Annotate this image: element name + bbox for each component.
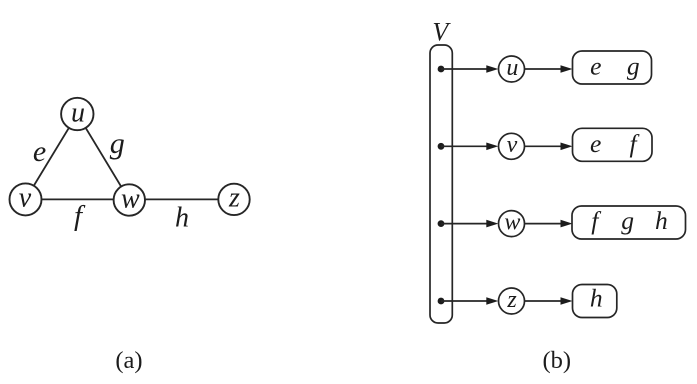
row u: dot (438, 66, 445, 73)
row u: arrow to list (525, 65, 573, 73)
svg-text:e: e (590, 129, 601, 158)
wire edge f (v-w) (26, 198, 130, 200)
svg-text:u: u (506, 55, 518, 81)
node u (61, 97, 93, 130)
node v (10, 182, 42, 215)
node z (218, 183, 249, 215)
svg-text:e: e (590, 52, 601, 81)
row w: arrow to node (441, 220, 498, 228)
svg-text:z: z (228, 183, 240, 214)
wire edge g (u-w) (77, 114, 129, 200)
row w: edge list box (572, 206, 686, 239)
svg-text:h: h (175, 202, 189, 233)
row v: arrow to node (441, 143, 498, 151)
svg-text:w: w (504, 210, 520, 236)
row w: arrow to list (525, 220, 573, 228)
row v: arrow to list (525, 143, 573, 151)
row w: dot (438, 220, 445, 227)
row v: dot (438, 143, 445, 150)
svg-text:(b): (b) (543, 347, 572, 374)
svg-text:g: g (627, 52, 640, 81)
wire edge h (w-z) (129, 198, 234, 200)
row z: edge list box (573, 285, 617, 318)
row z: dot (438, 298, 445, 305)
row z: node z (499, 287, 525, 314)
svg-text:(a): (a) (115, 347, 142, 374)
svg-text:h: h (590, 284, 603, 313)
svg-text:g: g (621, 206, 634, 235)
row u: edge list box (573, 51, 652, 84)
svg-text:v: v (19, 182, 32, 213)
row u: node u (499, 55, 525, 82)
row v: node v (499, 132, 525, 159)
svg-text:z: z (506, 287, 517, 313)
vertex array V (430, 45, 452, 323)
node w (114, 183, 145, 215)
svg-text:e: e (33, 135, 46, 168)
svg-text:g: g (110, 127, 125, 160)
row z: arrow to node (441, 297, 498, 305)
wire edge e (u-v) (26, 114, 78, 199)
svg-text:v: v (507, 132, 518, 158)
row w: node w (499, 210, 525, 237)
svg-text:h: h (655, 206, 668, 235)
svg-text:u: u (71, 97, 85, 128)
row u: arrow to node (441, 65, 498, 73)
svg-text:w: w (121, 183, 140, 214)
row v: edge list box (573, 128, 653, 161)
row z: arrow to list (525, 297, 573, 305)
